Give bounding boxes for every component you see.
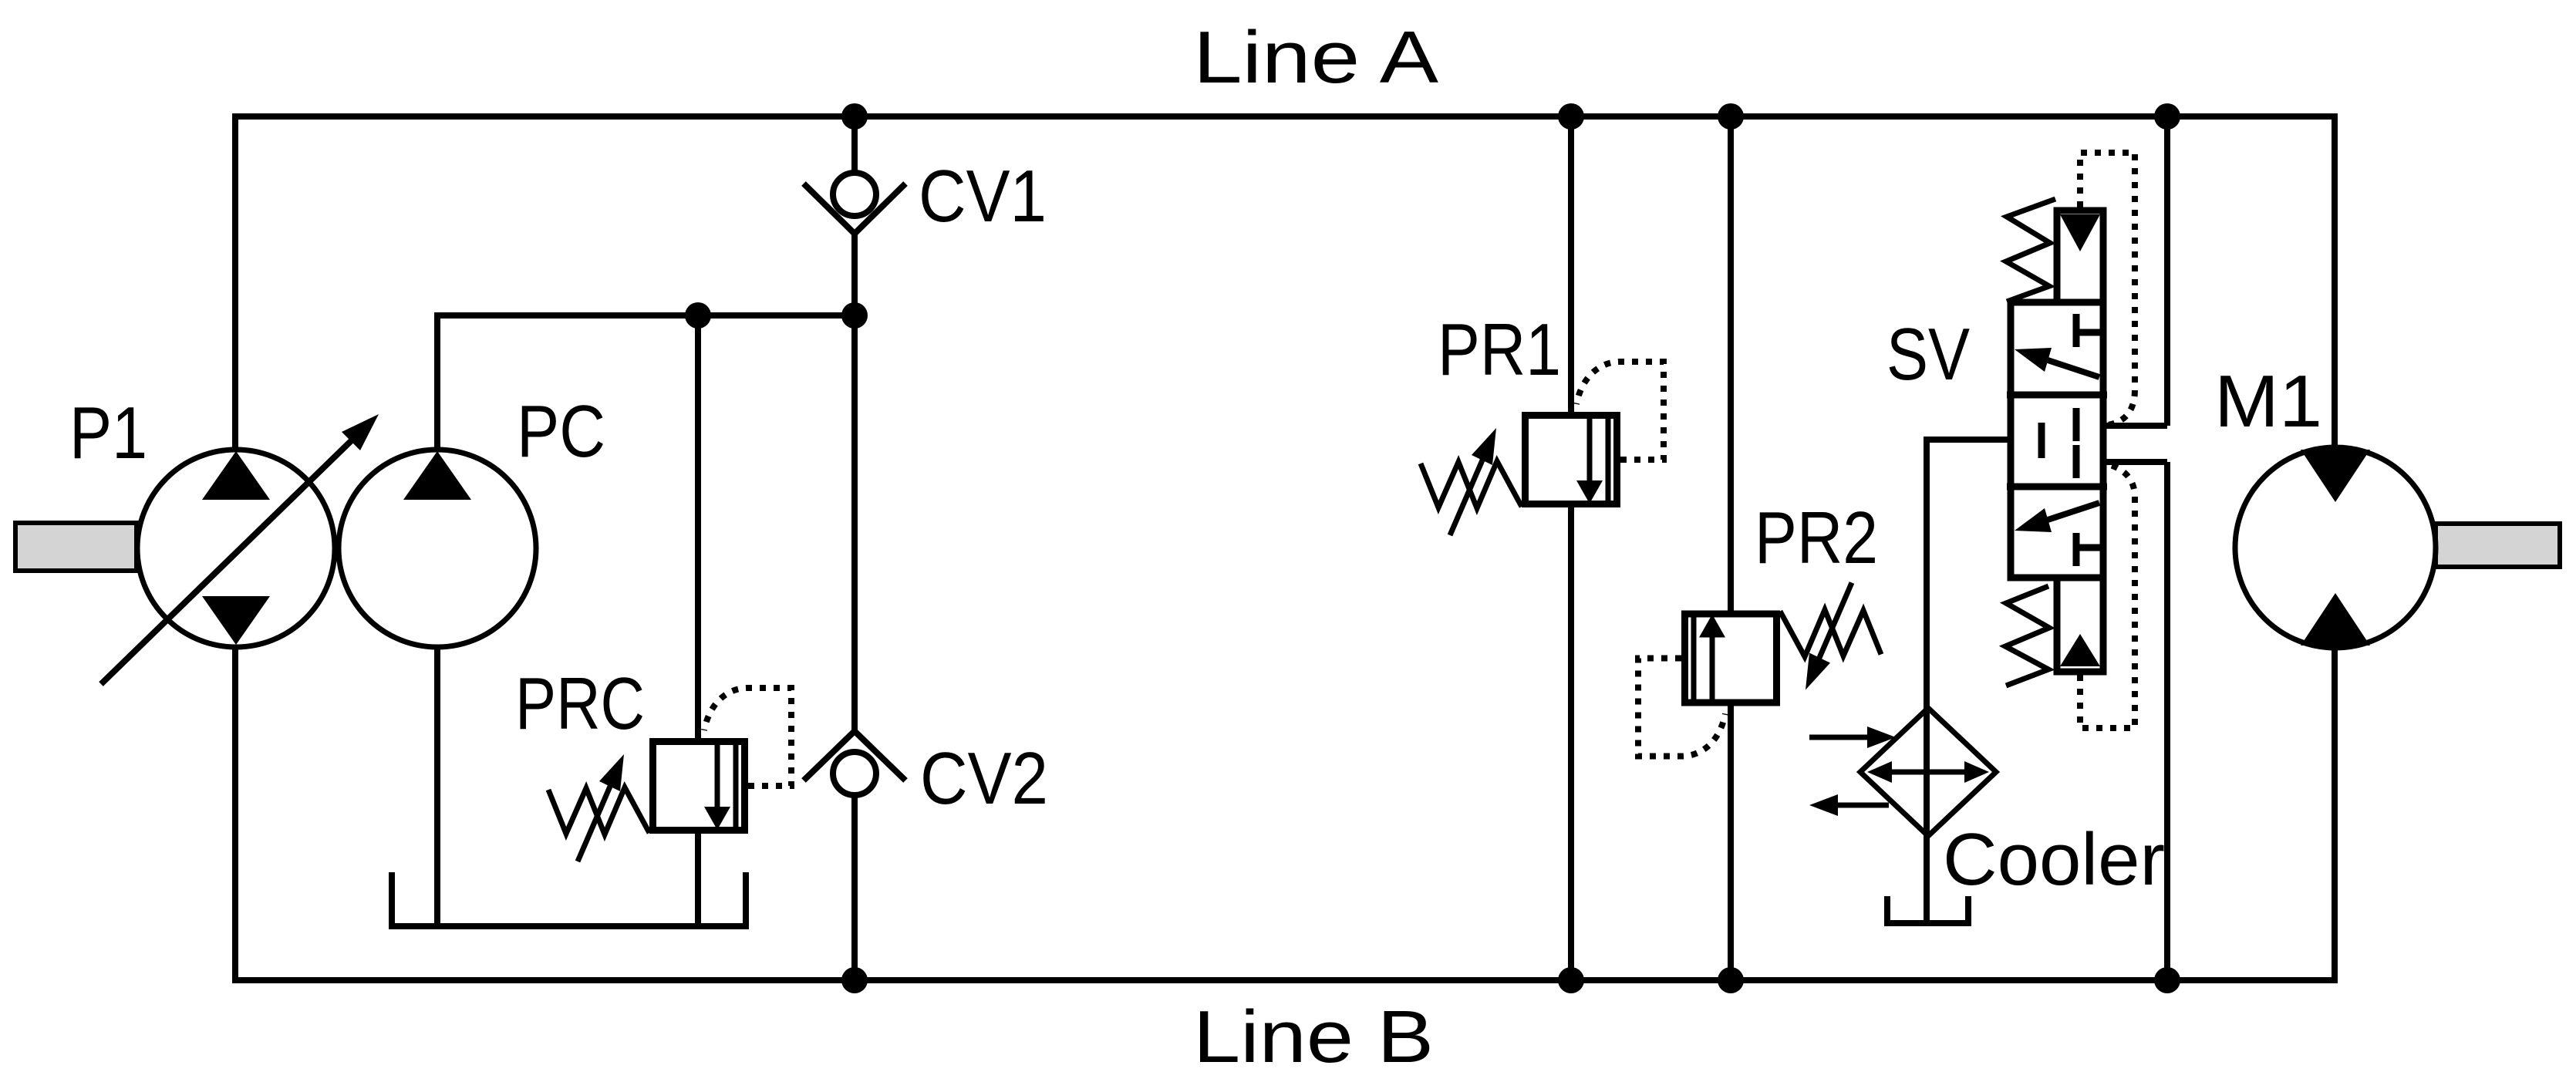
SV pilot cap bottom [2057, 578, 2103, 672]
wire PC outlet to check-valve branch [437, 315, 855, 450]
relief valve PR2 [1638, 583, 1881, 757]
SV pilot cap top [2057, 211, 2103, 302]
wire PR1 branch lower [1568, 507, 1574, 980]
pump PC (charge pump) [339, 450, 536, 647]
tank T2 (cooler return reservoir) [1887, 896, 1968, 923]
shuttle valve SV body [2005, 153, 2135, 728]
wire SV port B drop [2164, 462, 2170, 980]
svg-text:M1: M1 [2214, 360, 2322, 443]
SV pilot line bottom [2080, 464, 2135, 728]
svg-text:P1: P1 [69, 392, 147, 474]
wire CV2 to Line B segment [851, 796, 858, 980]
motor M1 [2235, 447, 2560, 648]
node PR2-LineB [1718, 967, 1744, 993]
relief valve PRC [548, 688, 791, 861]
svg-text:CV2: CV2 [920, 737, 1048, 820]
node CV-branch [841, 302, 868, 329]
SV box2 blocked right lower T [2073, 445, 2080, 478]
wire SV lower port stub [2076, 459, 2167, 465]
node PR1-LineB [1558, 967, 1584, 993]
svg-text:Cooler: Cooler [1943, 818, 2165, 901]
wire SV outlet to cooler [1927, 440, 2042, 920]
node SV-LineA [2154, 103, 2180, 130]
SV pilot line top [2080, 153, 2135, 425]
svg-text:CV1: CV1 [919, 155, 1047, 238]
svg-text:PR1: PR1 [1438, 308, 1561, 391]
node CV1-LineA [841, 103, 868, 130]
SV box1 blocked port T [2073, 314, 2080, 347]
svg-text:SV: SV [1886, 313, 1970, 396]
svg-text:Line A: Line A [1193, 16, 1438, 99]
svg-text:PC: PC [517, 390, 605, 473]
wire outer loop bottom: Line B with left and right verticals [235, 646, 2335, 980]
wire PRC outlet to tank [695, 831, 701, 923]
check valve CV1 [804, 173, 905, 234]
wire PC case drain to tank [434, 647, 440, 923]
wire junction to CV2 segment [851, 315, 858, 730]
wire CV1 branch upper segment [851, 116, 858, 174]
SV box3 flow arrow [2045, 503, 2099, 521]
node CV2-LineB [841, 967, 868, 993]
wire CV1 to junction segment [851, 231, 858, 315]
node SV-LineB [2154, 967, 2180, 993]
SV spring bottom [2005, 586, 2049, 686]
wire SV port A riser [2164, 116, 2170, 426]
tank T1 (charge/relief drain reservoir) [392, 872, 746, 926]
SV spring top [2006, 199, 2055, 302]
node PR2-LineA [1718, 103, 1744, 130]
SV box2 blocked right upper T [2073, 408, 2080, 441]
wire PR1 branch upper [1568, 116, 1574, 415]
SV box1 flow arrow [2045, 359, 2099, 377]
svg-text:PR2: PR2 [1755, 497, 1878, 579]
svg-text:PRC: PRC [515, 662, 645, 745]
wire PR2 branch lower [1728, 704, 1734, 980]
wire PR2 branch upper [1728, 116, 1734, 612]
SV box3 blocked port T [2073, 533, 2080, 566]
node PRC-branch [685, 302, 711, 329]
cooler [1809, 708, 1996, 836]
wire PRC branch upper [695, 315, 701, 740]
relief valve PR1 [1421, 362, 1664, 535]
node PR1-LineA [1558, 103, 1584, 130]
pump P1 (variable displacement) [15, 414, 379, 684]
SV box2 blocked left port T [2038, 423, 2045, 458]
wire SV upper port stub [2076, 423, 2167, 429]
check valve CV2 [804, 731, 905, 795]
wire outer loop top: Line A with left and right verticals [235, 116, 2335, 451]
svg-text:Line B: Line B [1193, 996, 1434, 1072]
